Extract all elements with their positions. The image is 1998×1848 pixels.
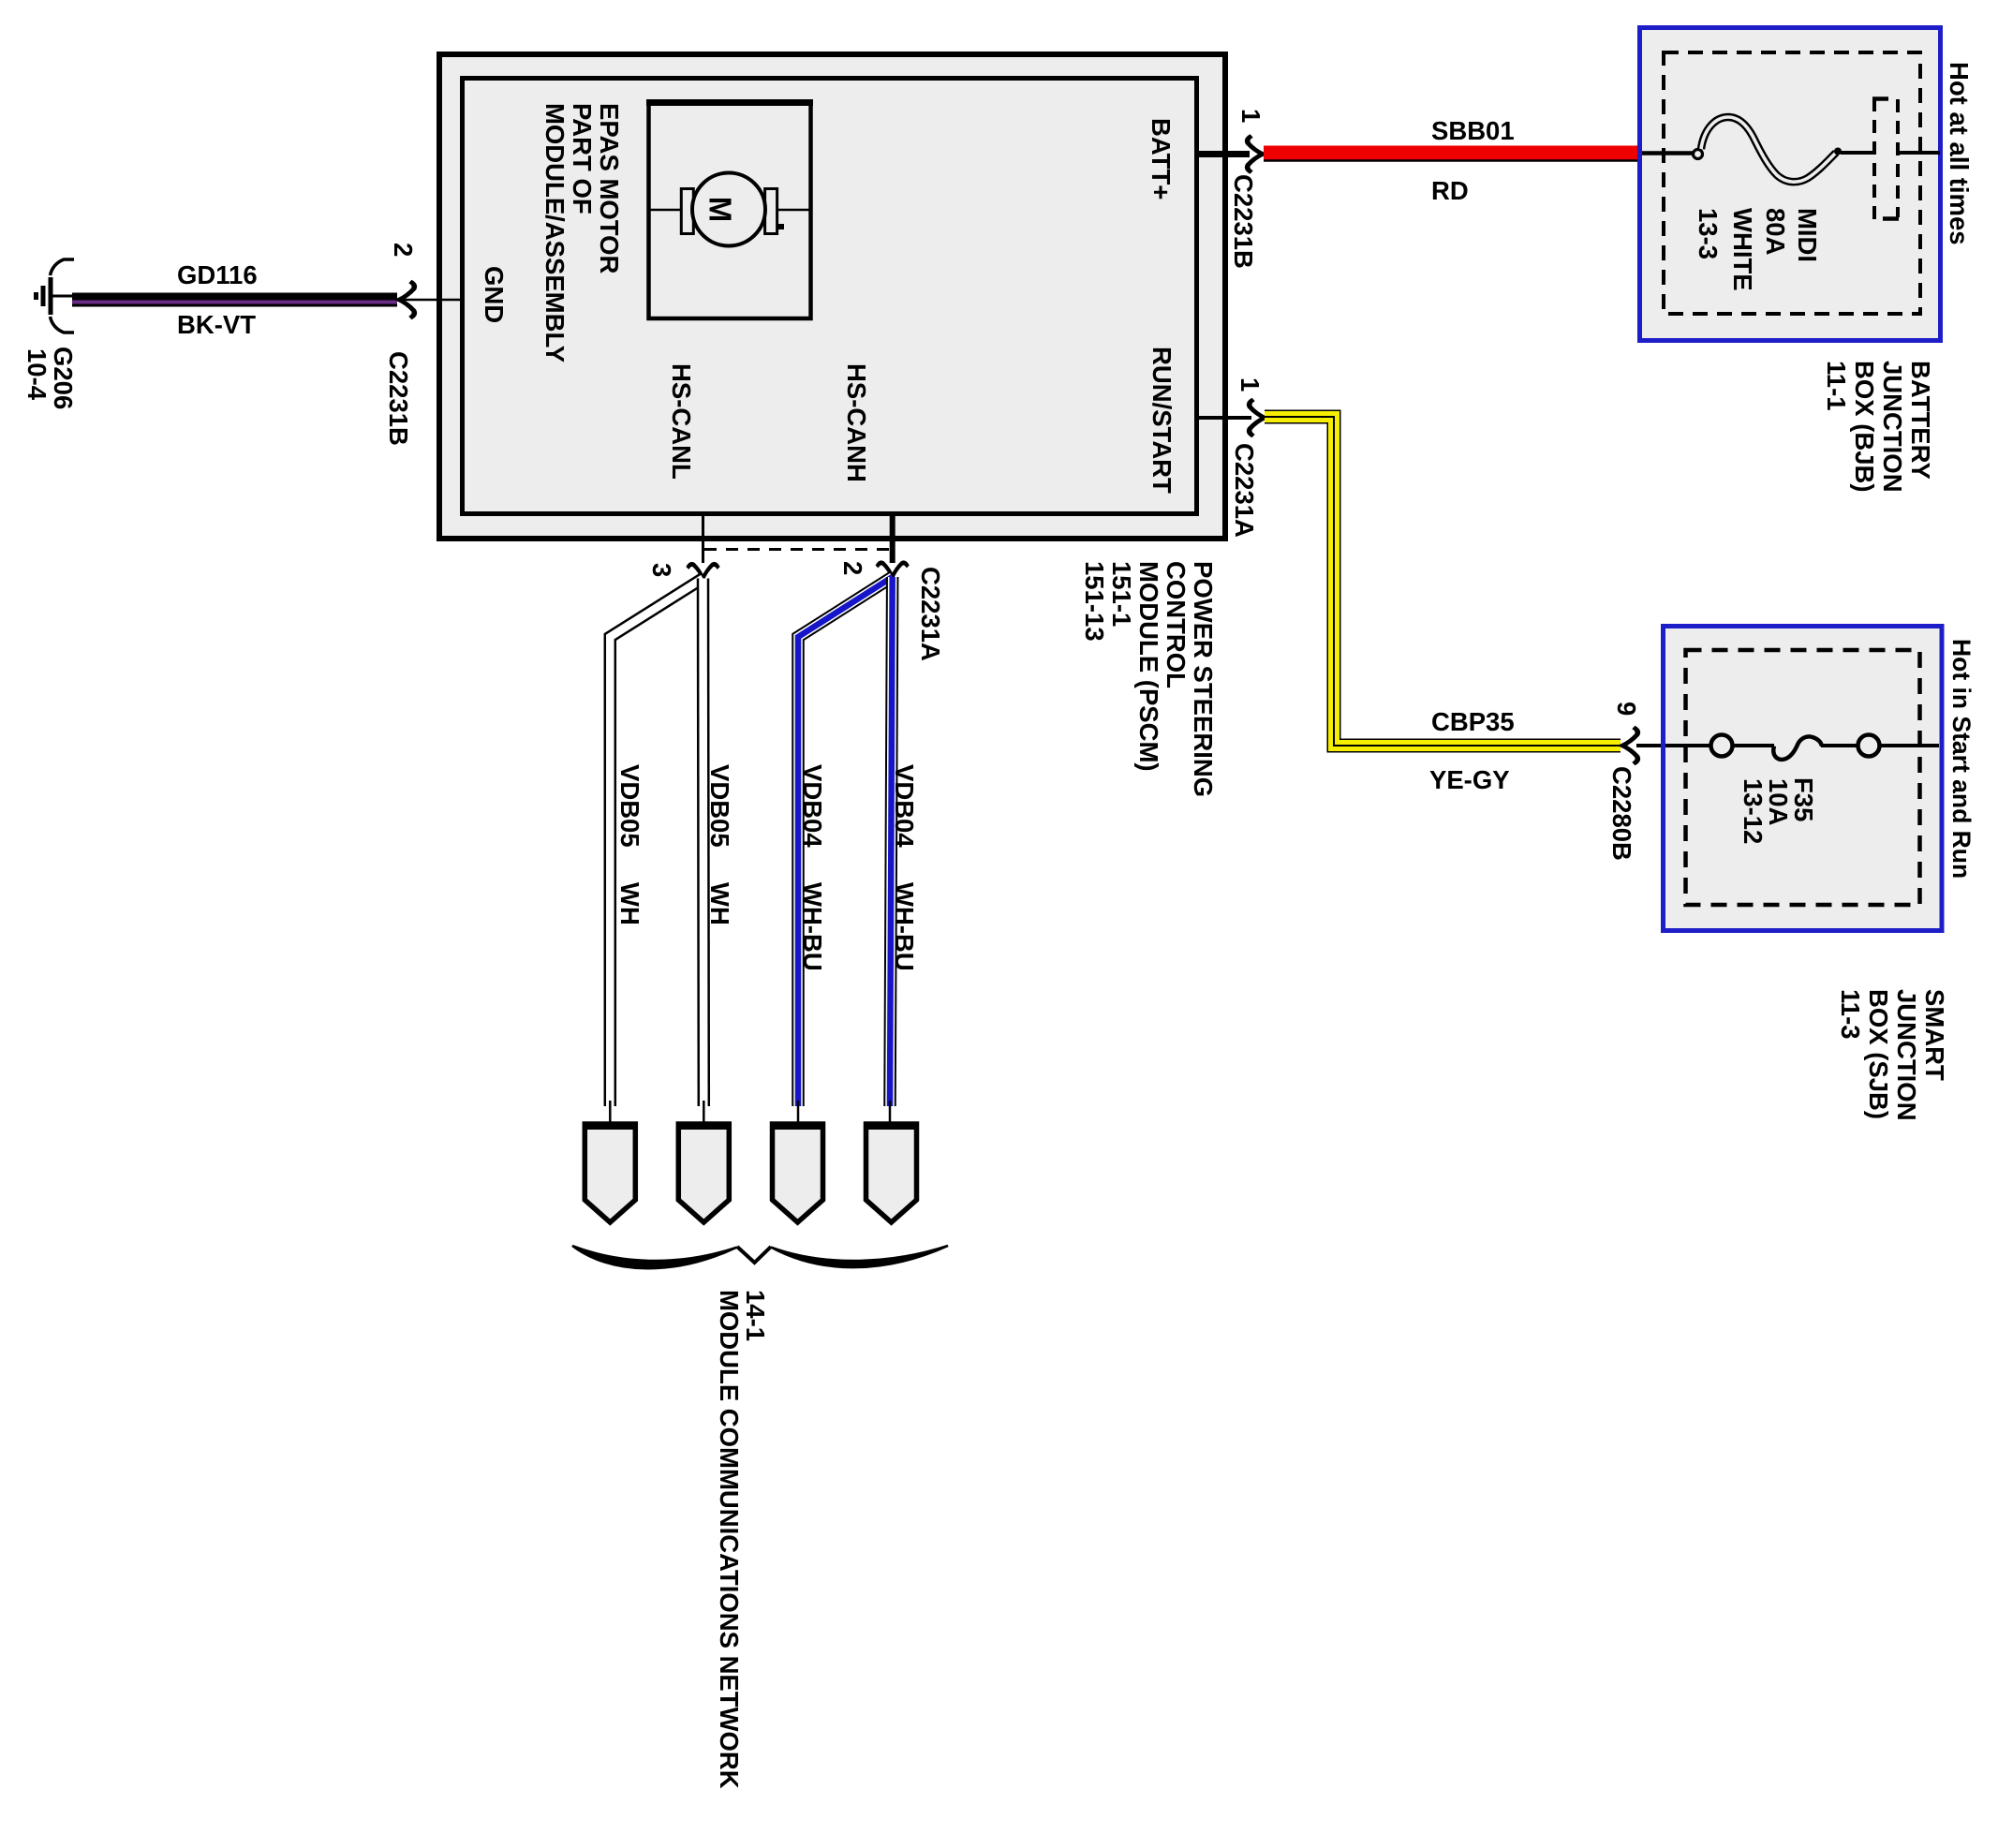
svg-text:VDB04: VDB04 xyxy=(798,764,827,848)
svg-text:BOX (SJB): BOX (SJB) xyxy=(1864,989,1893,1119)
brace right half xyxy=(771,1246,948,1267)
svg-text:WH: WH xyxy=(705,882,734,925)
svg-text:13-3: 13-3 xyxy=(1694,208,1723,259)
off-page connector 4 xyxy=(865,1124,919,1222)
motor brush left xyxy=(681,189,693,234)
wire SBB01 RD xyxy=(1264,146,1640,160)
connector arrow pin 3 xyxy=(688,564,718,578)
svg-text:GND: GND xyxy=(480,266,509,323)
svg-text:YE-GY: YE-GY xyxy=(1429,765,1510,794)
svg-text:2: 2 xyxy=(838,561,867,575)
EPAS motor box xyxy=(649,102,811,318)
connector arrow C2231B at BATT+ xyxy=(1248,136,1263,172)
wire GD116 BK-VT xyxy=(72,293,397,307)
motor brush right xyxy=(765,189,777,234)
svg-text:M: M xyxy=(703,197,738,223)
CAN wire VDB04 branch D xyxy=(890,577,893,1106)
connector arrow C2280B xyxy=(1622,728,1637,764)
fuse pad right xyxy=(1858,735,1880,757)
connector arrow C2231B at GND xyxy=(399,282,414,318)
off-page connector 2 xyxy=(676,1124,731,1222)
svg-text:WH: WH xyxy=(615,882,644,925)
BJB wire to fuse xyxy=(1642,151,1694,155)
svg-text:POWER STEERING: POWER STEERING xyxy=(1189,561,1218,797)
HS-CANH pin stub xyxy=(890,516,895,563)
svg-text:VDB04: VDB04 xyxy=(890,764,919,848)
svg-text:Hot in Start and Run: Hot in Start and Run xyxy=(1947,639,1976,879)
wire BATT+ pin xyxy=(1199,151,1250,157)
svg-text:BATTERY: BATTERY xyxy=(1906,361,1935,480)
svg-text:10-4: 10-4 xyxy=(22,348,52,401)
svg-text:BATT+: BATT+ xyxy=(1147,118,1176,200)
svg-text:BOX (BJB): BOX (BJB) xyxy=(1850,361,1879,493)
svg-text:MODULE COMMUNICATIONS NETWORK: MODULE COMMUNICATIONS NETWORK xyxy=(715,1290,744,1789)
svg-text:80A: 80A xyxy=(1761,208,1790,256)
BJB dashed border xyxy=(1664,52,1920,314)
motor polarity dot xyxy=(778,224,784,229)
connector arrow pin 2 xyxy=(877,563,908,577)
svg-text:RD: RD xyxy=(1431,176,1469,205)
off-page connector 1 xyxy=(583,1124,637,1222)
svg-text:JUNCTION: JUNCTION xyxy=(1892,989,1921,1121)
svg-text:9: 9 xyxy=(1612,702,1641,716)
battery junction box BJB xyxy=(1640,28,1941,341)
BJB dashed bus bar xyxy=(1872,98,1876,220)
BJB wire to bus xyxy=(1841,151,1874,155)
svg-text:VDB05: VDB05 xyxy=(615,764,644,848)
svg-text:HS-CANL: HS-CANL xyxy=(667,363,696,480)
lead into connector 1 xyxy=(609,1101,612,1126)
svg-text:WH-BU: WH-BU xyxy=(798,882,827,971)
fuse pad left xyxy=(1711,735,1733,757)
motor wire left xyxy=(650,209,684,212)
svg-text:PART OF: PART OF xyxy=(568,103,597,214)
svg-text:13-12: 13-12 xyxy=(1739,778,1768,844)
svg-text:EPAS MOTOR: EPAS MOTOR xyxy=(595,103,624,274)
svg-text:C2231B: C2231B xyxy=(384,351,413,446)
svg-text:WH-BU: WH-BU xyxy=(890,882,919,971)
svg-text:RUN/START: RUN/START xyxy=(1147,347,1177,494)
svg-text:1: 1 xyxy=(1236,377,1265,392)
svg-text:SBB01: SBB01 xyxy=(1431,116,1515,145)
svg-text:VDB05: VDB05 xyxy=(705,764,734,848)
svg-text:CBP35: CBP35 xyxy=(1431,707,1515,736)
smart junction box SJB xyxy=(1664,627,1943,931)
lead into connector 3 xyxy=(797,1101,800,1126)
svg-text:1: 1 xyxy=(1236,109,1265,123)
svg-text:GD116: GD116 xyxy=(177,260,258,289)
SJB internal wire left xyxy=(1665,744,1774,747)
svg-text:JUNCTION: JUNCTION xyxy=(1878,361,1907,493)
svg-text:MODULE (PSCM): MODULE (PSCM) xyxy=(1134,561,1163,772)
svg-text:SMART: SMART xyxy=(1920,989,1949,1081)
ground symbol G206 xyxy=(37,259,75,333)
svg-text:11-3: 11-3 xyxy=(1836,989,1865,1040)
wire into SJB xyxy=(1636,744,1939,747)
svg-text:G206: G206 xyxy=(49,347,78,409)
svg-text:C2280B: C2280B xyxy=(1607,766,1636,861)
fusible link element xyxy=(1701,117,1836,182)
twisted pair dashed line xyxy=(704,548,891,551)
svg-text:CONTROL: CONTROL xyxy=(1162,561,1191,688)
fuse right dot xyxy=(1834,148,1842,155)
CAN wire VDB05 branch B xyxy=(697,579,710,1107)
svg-text:3: 3 xyxy=(647,563,676,577)
lead into connector 4 xyxy=(889,1101,892,1126)
svg-text:WHITE: WHITE xyxy=(1728,208,1757,291)
svg-text:151-13: 151-13 xyxy=(1080,561,1109,642)
SJB internal wire right xyxy=(1821,744,1939,747)
CAN wire VDB05 branch A xyxy=(610,579,703,1107)
CAN wire VDB04 branch C xyxy=(798,577,893,1106)
fuse F35 element xyxy=(1773,736,1822,760)
motor circle xyxy=(692,173,765,246)
wire RUN/START pin xyxy=(1199,416,1251,420)
motor box top thick line xyxy=(646,99,813,106)
svg-text:14-1: 14-1 xyxy=(741,1290,770,1341)
svg-text:C2231A: C2231A xyxy=(916,567,945,661)
svg-text:151-1: 151-1 xyxy=(1107,561,1136,627)
svg-text:2: 2 xyxy=(389,243,418,257)
motor wire right xyxy=(776,209,811,212)
brace left half xyxy=(572,1246,737,1268)
lead into connector 2 xyxy=(703,1101,705,1126)
wire CBP35 YE-GY xyxy=(1265,417,1621,746)
svg-text:MIDI: MIDI xyxy=(1793,208,1822,262)
connector arrow C2231A at RUN/START xyxy=(1250,400,1265,436)
svg-text:C2231B: C2231B xyxy=(1229,174,1258,269)
svg-text:HS-CANH: HS-CANH xyxy=(842,363,871,482)
SJB dashed border xyxy=(1686,650,1920,905)
svg-text:BK-VT: BK-VT xyxy=(177,310,256,339)
module PSCM inner box xyxy=(463,79,1197,514)
svg-text:MODULE/ASSEMBLY: MODULE/ASSEMBLY xyxy=(540,103,570,362)
wire stub to module xyxy=(397,299,460,302)
BJB wire to edge xyxy=(1897,151,1940,155)
off-page connector 3 xyxy=(771,1124,825,1222)
svg-text:11-1: 11-1 xyxy=(1822,361,1851,411)
brace center notch xyxy=(737,1247,771,1263)
HS-CANL pin stub xyxy=(702,516,704,563)
svg-text:C2231A: C2231A xyxy=(1230,443,1259,538)
svg-text:Hot at all times: Hot at all times xyxy=(1945,62,1974,245)
module PSCM outer box xyxy=(439,54,1225,539)
fuse pad left xyxy=(1694,150,1703,159)
